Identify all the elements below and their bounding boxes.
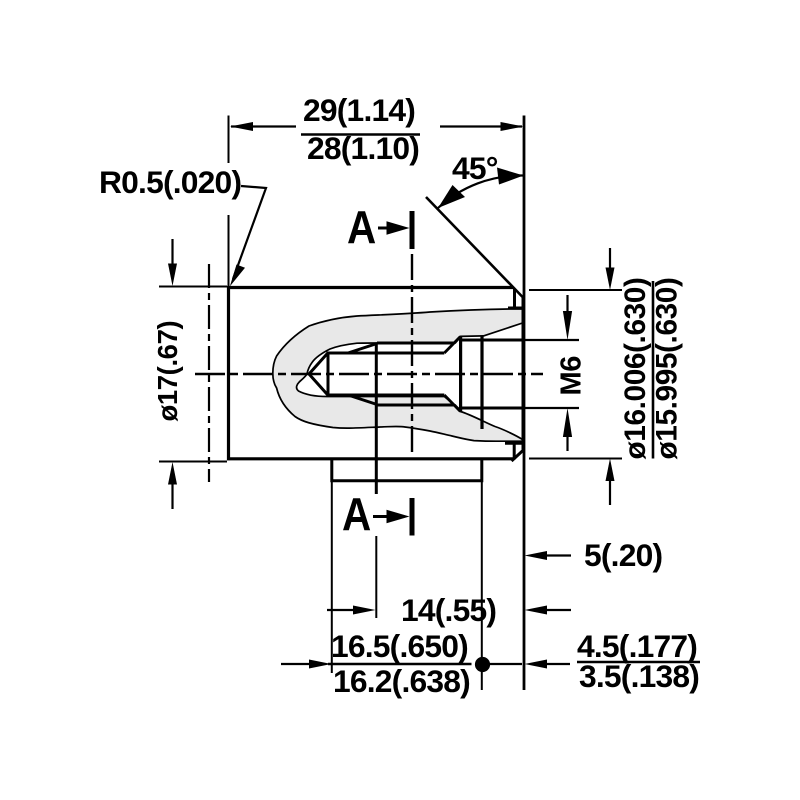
fraction bar 4.5/3.5: [577, 661, 700, 663]
svg-text:A: A: [342, 490, 371, 541]
drill cone base vertical: [327, 352, 330, 397]
dia17 bottom extension line: [159, 461, 227, 463]
section line A-A thick end bar (bottom): [410, 498, 415, 536]
line from dot to right extension: [487, 663, 522, 665]
pilot hole minor diameter top line: [328, 352, 444, 355]
body outline: right face: [522, 297, 525, 450]
dia16 dimension bottom arrow: [609, 479, 611, 505]
pilot hole minor diameter bottom line: [328, 394, 444, 397]
extension line below thread start x=377: [375, 536, 377, 618]
chamfer bottom-right: [512, 450, 525, 462]
dimension 14(.55) right arrow: [545, 609, 571, 611]
dimension 4.5/3.5 arrow: [545, 663, 570, 665]
45 deg chamfer line extended (top right): [426, 197, 524, 299]
left extension line above body x=228.5 (broken by R0.5 text): [228, 116, 230, 164]
R0.5 leader arrowhead: [230, 265, 245, 287]
svg-text:29(1.14): 29(1.14): [303, 92, 415, 128]
extension line below boss left x=331.8: [331, 481, 333, 673]
fraction bar dia16 vertical: [652, 281, 655, 459]
rim step top: vertical: [513, 289, 516, 308]
full thread start vertical (x=377): [375, 343, 378, 494]
dimension 5(.20) arrow: [545, 554, 571, 556]
thread end diagonals bottom: [444, 395, 460, 411]
45 deg arc arrowhead right (at vertical line): [497, 168, 524, 185]
bore step vertical (x=460.6): [459, 337, 462, 412]
svg-text:16.2(.638): 16.2(.638): [333, 663, 470, 699]
45 deg dimension arc: [438, 175, 524, 208]
45 deg arc arrowhead left (at chamfer line): [438, 185, 465, 208]
svg-text:M6: M6: [556, 356, 588, 396]
grey slot cavity (hook shaped): [273, 309, 523, 441]
bore bottom line + M6 extension line: [461, 407, 524, 410]
dia17 top extension line: [159, 286, 227, 288]
long right vertical extension line x=524: [523, 116, 526, 691]
thread end diagonals top: [444, 337, 460, 353]
dia16 top extension line: [529, 289, 622, 291]
dimension 14(.55) left arrow: [327, 609, 355, 611]
dia16 bottom extension line: [529, 458, 622, 460]
bore top line + M6 extension line: [461, 339, 524, 342]
dimension 16.5/16.2 left arrow: [281, 663, 311, 665]
svg-text:R0.5(.020): R0.5(.020): [99, 164, 241, 200]
R0.5 leader line: [233, 186, 266, 279]
thread major diameter top line: [377, 342, 455, 345]
svg-text:3.5(.138): 3.5(.138): [579, 658, 699, 694]
thread start chamfer diagonal top: [348, 344, 377, 354]
dia17 dimension bottom arrow: [171, 483, 173, 509]
thread major diameter bottom line: [377, 404, 455, 407]
rim step top: horizontal: [508, 307, 523, 310]
drill cone tip: [309, 353, 328, 395]
svg-text:14(.55): 14(.55): [401, 592, 496, 628]
M6 dimension top arrow: [566, 295, 568, 313]
svg-text:ø15.995(.630): ø15.995(.630): [651, 278, 684, 460]
dia17 dimension top arrow: [171, 239, 173, 266]
vertical dash-dot centerline at left (x=209): [208, 264, 210, 482]
svg-text:45°: 45°: [452, 150, 498, 186]
section line A-A thick end bar (top): [410, 211, 415, 249]
dia16 dimension top arrow: [609, 248, 611, 270]
body outline: top edge: [227, 286, 513, 289]
thread start chamfer diagonal bottom: [348, 395, 377, 405]
svg-text:16.5(.650): 16.5(.650): [331, 628, 468, 664]
svg-text:A: A: [347, 203, 376, 254]
section line A-A (dash-dot, x=412): [411, 254, 413, 457]
body outline: bottom edge: [227, 457, 513, 460]
body outline: left edge: [227, 286, 230, 460]
horizontal centerline of bore: [195, 373, 543, 376]
extension line below boss right x=481.8: [481, 481, 483, 690]
rim step bottom: vertical: [513, 443, 516, 459]
svg-text:ø17(.67): ø17(.67): [152, 321, 183, 422]
bore inner vertical (x=482): [480, 336, 483, 429]
dimension 29(1.14)/28(1.10) line with arrows: [231, 125, 296, 127]
section arrow A bottom: [373, 515, 389, 518]
M6 dimension bottom arrow: [566, 435, 568, 451]
fraction bar 16.5/16.2: [328, 663, 472, 665]
svg-text:28(1.10): 28(1.10): [307, 130, 419, 166]
fraction bar 29/28: [301, 133, 420, 136]
rim step bottom: horizontal: [505, 442, 523, 445]
boss below body: [332, 460, 482, 481]
section arrow A top: [378, 227, 390, 230]
dot terminator at x=481.8: [475, 657, 490, 672]
svg-text:ø16.006(.630): ø16.006(.630): [619, 278, 652, 460]
svg-text:5(.20): 5(.20): [584, 537, 662, 573]
